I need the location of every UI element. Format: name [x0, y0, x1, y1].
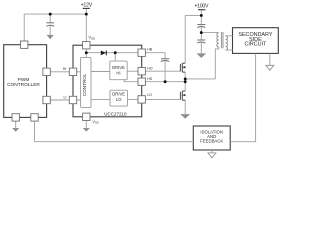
svg-text:+100V: +100V: [194, 4, 209, 10]
svg-text:LO: LO: [147, 93, 152, 97]
svg-text:SS: SS: [95, 121, 99, 125]
svg-text:PWM: PWM: [18, 77, 30, 83]
svg-text:DRIVE: DRIVE: [112, 92, 125, 97]
svg-text:HO: HO: [147, 67, 153, 71]
svg-text:DD: DD: [91, 37, 95, 41]
svg-text:HI: HI: [116, 71, 120, 76]
svg-text:HI: HI: [63, 67, 67, 71]
svg-text:DRIVE: DRIVE: [112, 65, 125, 70]
svg-text:CONTROL: CONTROL: [82, 73, 87, 96]
svg-text:HS: HS: [147, 77, 153, 81]
svg-text:FEEDBACK: FEEDBACK: [200, 139, 223, 144]
svg-text:CONTROLLER: CONTROLLER: [7, 82, 40, 88]
svg-text:UCC27210: UCC27210: [104, 112, 127, 117]
svg-text:CIRCUIT: CIRCUIT: [244, 42, 267, 48]
svg-text:LO: LO: [116, 97, 122, 102]
svg-text:+12V: +12V: [81, 2, 93, 8]
svg-text:HB: HB: [147, 48, 153, 52]
svg-text:LI: LI: [64, 96, 67, 100]
